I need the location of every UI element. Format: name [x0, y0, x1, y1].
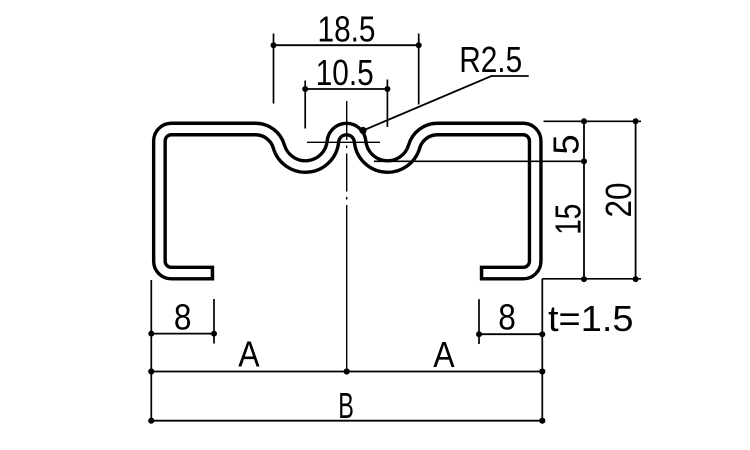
svg-text:18.5: 18.5: [318, 9, 376, 50]
dim 18.5 line: [274, 44, 419, 46]
svg-text:t=1.5: t=1.5: [548, 298, 634, 339]
svg-text:B: B: [338, 385, 354, 426]
extension B right vertical: [541, 279, 543, 421]
svg-text:10.5: 10.5: [316, 52, 374, 93]
dim 8 right line: [479, 333, 542, 335]
svg-text:15: 15: [548, 204, 589, 235]
dim 10.5 extension left: [304, 81, 306, 129]
dim A line: [151, 371, 542, 373]
svg-text:8: 8: [498, 297, 516, 338]
dim 10.5 line: [305, 88, 387, 90]
dim 18.5 extension right: [418, 34, 420, 105]
dim 8 right extension: [478, 299, 480, 344]
svg-text:20: 20: [598, 183, 639, 218]
centerline vertical (dash-dot): [346, 101, 348, 372]
dim 20 vertical line: [635, 121, 637, 279]
dim 8 left line: [151, 333, 214, 335]
extension top right horizontal: [544, 120, 642, 122]
centerline cross horizontal at R2.5 arc center: [307, 141, 380, 143]
dim 5/15 vertical line: [583, 121, 585, 279]
extension bottom right horizontal: [542, 278, 641, 280]
svg-text:A: A: [238, 334, 260, 375]
svg-text:8: 8: [174, 297, 192, 338]
extension mid horizontal (valley level): [374, 160, 584, 162]
extension B left vertical: [150, 280, 152, 421]
svg-text:A: A: [433, 334, 455, 375]
leader R2.5: [363, 76, 529, 131]
profile outline (inner white stroke making double line): [159, 129, 535, 273]
profile outline (sheet metal section, outer black stroke): [159, 129, 535, 273]
svg-text:R2.5: R2.5: [459, 39, 522, 80]
dim 8 left extension: [213, 299, 215, 344]
svg-text:5: 5: [546, 134, 587, 154]
dim 18.5 extension left: [273, 34, 275, 104]
dim 10.5 extension right: [386, 80, 388, 128]
dim B line: [151, 420, 542, 422]
